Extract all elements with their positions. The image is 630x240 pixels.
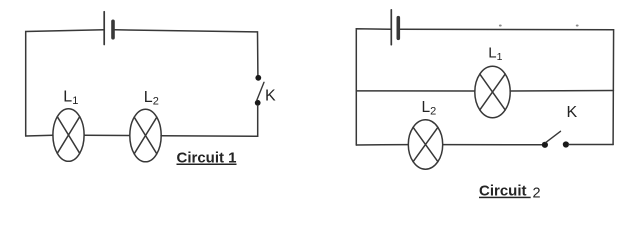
- lamp L2 (circuit 2, circle with X): [408, 120, 442, 169]
- wire: middle branch right of lamp L1: [510, 90, 613, 93]
- switch K1 bottom contact dot: [255, 100, 261, 106]
- wire: bottom branch left of lamp L2: [356, 144, 408, 146]
- speck mark (scan artifact) left: [499, 25, 502, 27]
- wire: switch to bottom-right corner: [569, 144, 613, 146]
- switch K1 top contact dot: [255, 75, 261, 81]
- svg-text:2: 2: [533, 186, 541, 202]
- lamp L1 (circuit 2, circle with X): [475, 66, 510, 117]
- battery B2 short thick plate: [396, 18, 400, 39]
- wire: left side and top segment to battery: [26, 30, 105, 136]
- switch K1 lever (open): [257, 82, 264, 100]
- switch K2 right contact dot: [563, 141, 569, 147]
- wire: middle branch left of lamp L1: [356, 90, 475, 92]
- lamp L2 (circle with X): [130, 109, 161, 162]
- battery B1 short thick plate: [111, 21, 115, 37]
- wire: battery to top-right corner, down to switch: [115, 30, 258, 76]
- switch K2 left contact dot: [542, 142, 548, 148]
- battery B1 long thin plate: [103, 12, 105, 45]
- wire: between lamps L1 and L2: [84, 134, 130, 136]
- svg-text:Circuit 1: Circuit 1: [177, 150, 237, 167]
- wire: battery to top-right corner, down right side: [400, 29, 613, 144]
- speck mark (scan artifact) right: [576, 25, 579, 27]
- wire: switch to bottom-right corner then left to lamp L2: [161, 105, 258, 136]
- battery B2 long thin plate: [390, 10, 392, 45]
- switch K2 lever (open): [546, 131, 561, 142]
- svg-text:Circuit: Circuit: [479, 183, 531, 200]
- lamp L1 (circle with X): [53, 109, 84, 162]
- wire: left side and top segment to battery: [356, 29, 391, 145]
- svg-text:K: K: [265, 88, 276, 105]
- svg-text:K: K: [567, 104, 578, 121]
- wire: lamp L2 to switch: [443, 144, 543, 146]
- wire: lamp L1 to bottom-left corner: [26, 134, 53, 137]
